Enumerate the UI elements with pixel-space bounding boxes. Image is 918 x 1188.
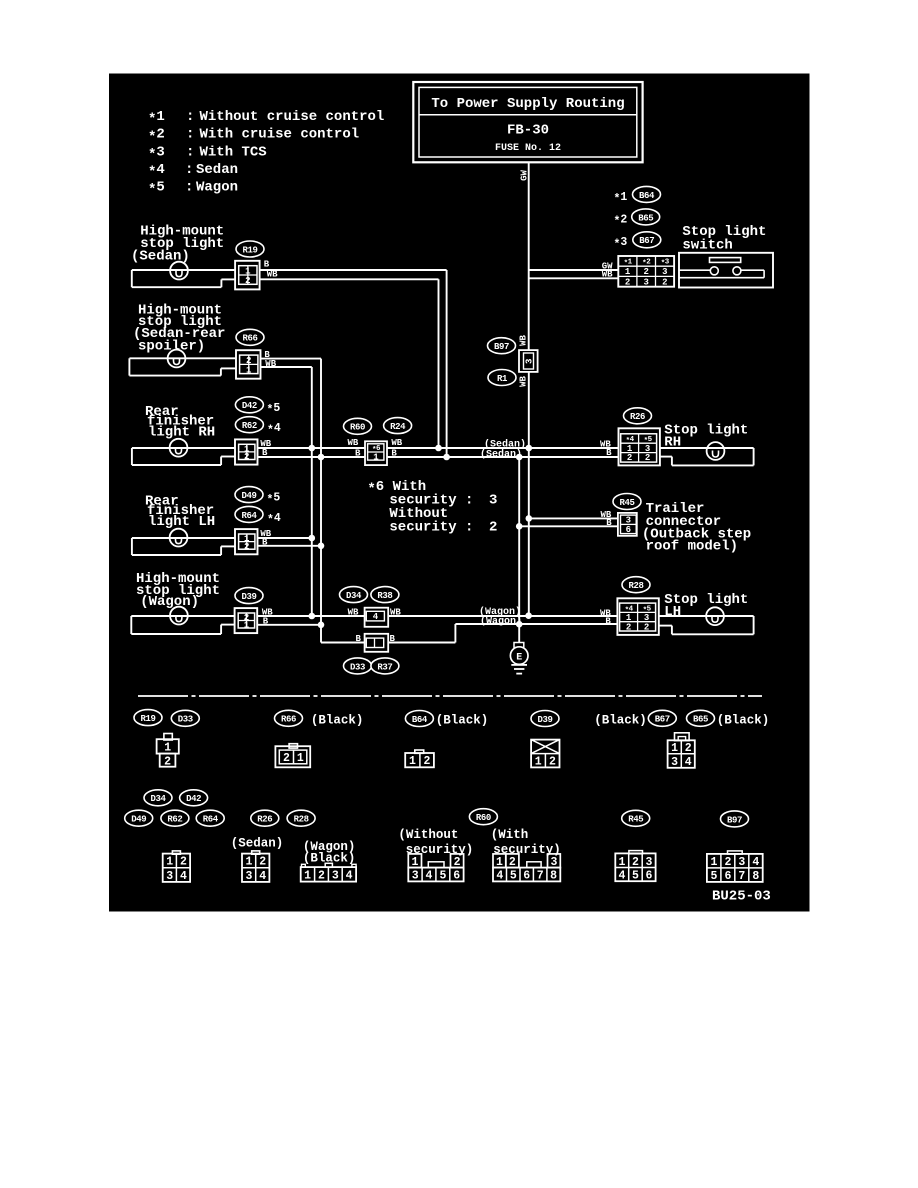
svg-text:5: 5 [632,870,639,883]
svg-text:E: E [516,652,522,663]
label Rear finisher light RH [145,404,215,441]
variant note (Wagon)(Black) [303,840,356,865]
wire WB from B97/R1 connector down to sedan WB bus [528,372,530,448]
wire B branch to trailer connector R45 [519,525,618,527]
legend note *3 [148,144,267,163]
wire GW vertical from fuse box [528,162,530,350]
wire junction [318,622,325,629]
svg-text:B97: B97 [727,815,742,825]
svg-text:1: 1 [710,856,717,869]
svg-text:2: 2 [724,856,731,869]
wire junction [309,613,316,620]
svg-text:(Wagon): (Wagon) [140,594,199,610]
svg-text:3: 3 [412,870,419,883]
connector label R24 [384,418,412,434]
svg-text:(Sedan): (Sedan) [480,449,522,461]
svg-text:BU25-03: BU25-03 [712,888,771,904]
svg-text:1: 1 [619,856,626,869]
wire junction [526,515,533,522]
svg-text:R19: R19 [140,714,155,724]
svg-text:1: 1 [373,453,379,463]
ground symbol E [510,624,528,673]
svg-text:4: 4 [346,870,353,883]
svg-text:6: 6 [645,870,652,883]
svg-text:1: 1 [246,856,253,869]
connector label R45 [613,494,641,510]
connector label B64 [633,186,661,202]
svg-text:B67: B67 [655,715,670,725]
svg-text:2: 2 [454,856,461,869]
svg-text:R45: R45 [619,498,634,508]
svg-text:(Black): (Black) [594,713,647,727]
label High-mount stop light (Wagon) [136,571,220,610]
inline connector D33/R37 [365,634,389,652]
svg-text:R26: R26 [630,412,645,422]
svg-text:2: 2 [244,542,249,552]
wire junction [318,543,325,550]
svg-text:B: B [606,518,612,528]
svg-text:B: B [606,448,612,458]
svg-text:security :: security : [389,520,473,536]
svg-text:WB: WB [348,608,359,618]
svg-text:2: 2 [644,622,649,632]
svg-text:1: 1 [297,752,304,765]
svg-text:2: 2 [625,277,630,287]
net wagon B path through D33/R37 [257,624,321,626]
svg-text:FB-30: FB-30 [507,123,549,139]
svg-text:4: 4 [180,870,187,883]
svg-text:D39: D39 [241,592,256,602]
connector label R26 [624,408,652,424]
svg-text:R28: R28 [294,815,309,825]
wire junction [318,454,325,461]
svg-text:D42: D42 [186,794,201,804]
inline connector B97/R1 pin 3 [519,350,538,372]
svg-text:2: 2 [643,267,648,277]
wire GW horizontal to stop light switch [529,269,619,271]
svg-text:With TCS: With TCS [200,144,267,160]
pinout R26/R28 (Sedan) pins 1-4 [242,851,269,883]
svg-text:R45: R45 [628,815,643,825]
svg-text::: : [186,127,194,143]
wire WB branch to trailer connector R45 [529,517,618,519]
connector label R64 (pinout) [196,810,224,826]
svg-text:6: 6 [523,870,530,883]
wire lamp to connector R19 [132,269,235,271]
connector label R19 (pinout) [134,710,162,726]
svg-text:1: 1 [411,856,418,869]
wire lamp to connector R64 [132,537,235,539]
svg-text:D49: D49 [131,815,146,825]
svg-text:R66: R66 [242,334,257,344]
svg-text:2: 2 [318,870,325,883]
svg-text:D34: D34 [150,794,166,804]
wire lamp return loop (Wagon high-mount) [130,616,132,634]
svg-text:5: 5 [510,870,517,883]
svg-text:WB: WB [390,608,401,618]
svg-text:*4: *4 [267,422,281,437]
connector R28 pin grid [617,598,658,635]
svg-text:*1: *1 [614,191,628,206]
legend note *2 [148,127,359,146]
pinout B67/B65 pins 1-4 [668,733,695,769]
svg-text:2: 2 [423,755,430,768]
connector label R1 [488,370,516,386]
svg-text:4: 4 [426,870,433,883]
svg-text:2: 2 [245,276,250,286]
svg-text:D33: D33 [178,715,193,725]
svg-text:2: 2 [627,453,632,463]
svg-text:D34: D34 [346,591,362,601]
svg-text:D39: D39 [537,715,552,725]
trailer connector R45 pins 3/6 [618,513,637,536]
svg-text:8: 8 [752,870,759,883]
lamp rear finisher light LH [170,529,188,547]
svg-text:security): security) [493,843,561,857]
net sedan WB bus [258,447,366,449]
connector label B65 [632,209,660,225]
pinout R60 (with security) pins 1-8 [493,854,560,883]
connector R66 [236,350,261,379]
lamp high-mount stop light (Wagon) [170,607,188,625]
svg-text:2: 2 [685,742,692,755]
svg-text:B: B [605,617,611,627]
label Rear finisher light LH [145,494,215,531]
svg-text:(Black): (Black) [436,713,489,727]
pinout R19/D33 pins 1/2 [157,734,179,769]
label Stop light RH [664,423,748,451]
svg-text:B: B [355,448,361,458]
svg-text:WB: WB [602,270,613,280]
connector label D42 (pinout) [180,790,208,806]
svg-text:light RH: light RH [148,425,215,441]
svg-text:2: 2 [509,856,516,869]
connector label B97 (pinout) [721,811,749,827]
svg-text:2: 2 [259,856,266,869]
wire lamp to connector R62 [132,447,235,449]
connector label R60 (pinout) [469,809,497,825]
svg-text:B64: B64 [639,191,655,201]
svg-text:*5: *5 [148,179,165,198]
svg-text:1: 1 [625,267,631,277]
svg-text:switch: switch [682,238,732,254]
svg-text:1: 1 [304,870,311,883]
svg-text:1: 1 [164,742,171,755]
svg-text:B64: B64 [412,715,428,725]
wire stop light RH feed [660,447,754,449]
note *6 with/without security [367,479,497,536]
svg-text:D33: D33 [350,662,365,672]
svg-text:B67: B67 [639,236,654,246]
svg-text:5: 5 [710,870,717,883]
svg-text:With cruise control: With cruise control [200,127,360,143]
svg-text::: : [186,144,194,160]
svg-text:D42: D42 [242,401,257,411]
svg-text:(Sedan): (Sedan) [231,837,284,851]
wire stop light RH return loop [753,448,755,465]
connector label R28 [622,577,650,593]
lamp high-mount stop light (Sedan) [170,262,188,280]
svg-text:FUSE No. 12: FUSE No. 12 [495,143,561,154]
wire lamp to connector D39 [131,615,234,617]
connector label R28 (pinout) [287,810,315,826]
svg-text:B65: B65 [693,715,708,725]
svg-text:(Without: (Without [398,828,458,842]
svg-text:WB: WB [391,438,402,448]
net wagon WB bus [257,615,364,617]
pinout D34/D42/D49/R62/R64 pins 1-4 [163,851,190,883]
svg-text:WB: WB [348,438,359,448]
lamp stop light RH [707,442,725,460]
stop light switch body [679,253,773,288]
svg-text:Sedan: Sedan [196,162,238,178]
connector label B67 (pinout) [648,710,676,726]
svg-text:R37: R37 [377,662,392,672]
svg-text:1: 1 [409,755,416,768]
stop light switch label [682,224,766,254]
svg-text:3: 3 [645,856,652,869]
connector label B65 (pinout) [687,710,715,726]
svg-text:*5: *5 [267,492,281,507]
svg-text:light LH: light LH [148,514,215,530]
svg-text:B: B [390,634,396,644]
wire junction [516,523,523,530]
label High-mount stop light (Sedan) [131,224,224,265]
svg-text:R24: R24 [390,422,406,432]
inline connector D34/R38 pin 4 [365,608,389,627]
svg-text:R60: R60 [350,423,365,433]
connector label D33 (pinout) [171,710,199,726]
svg-text:*2: *2 [614,213,628,228]
wire lamp return loop (rear finisher LH) [131,538,133,555]
label Stop light LH [664,592,748,620]
svg-text:R26: R26 [257,815,272,825]
connector label R62 [235,417,263,433]
connector label B64 (pinout) [405,711,433,727]
wire lamp return loop (Sedan high-mount) [131,270,133,287]
connector label R45 (pinout) [622,810,650,826]
svg-text:GW: GW [519,170,529,181]
svg-text:R60: R60 [476,813,491,823]
svg-text:(Black): (Black) [311,713,364,727]
svg-text:6: 6 [724,870,731,883]
label High-mount stop light (Sedan-rear spoiler) [133,303,225,355]
svg-text:3: 3 [166,870,173,883]
svg-text::: : [185,179,193,195]
legend note *4 [148,162,238,181]
connector label R38 [371,587,399,603]
svg-text:2: 2 [626,622,631,632]
pinout R66 pins 2/1 [275,744,310,768]
svg-text:2: 2 [244,452,249,462]
wire junction [309,445,316,452]
svg-text:(Wagon): (Wagon) [480,616,522,628]
pinout B64 pins 1/2 [405,750,434,768]
wire lamp return loop (rear spoiler) [128,358,130,375]
svg-text:3: 3 [525,359,535,364]
svg-text:(Black): (Black) [717,713,770,727]
svg-text:B97: B97 [494,342,509,352]
wire WB riser from sedan WB bus to wagon WB bus [528,448,530,616]
svg-text:2: 2 [164,756,171,769]
variant note (With security) [491,828,561,857]
svg-text:*3: *3 [148,144,165,163]
svg-text:7: 7 [537,870,544,883]
wire WB from switch to B97 connector [529,277,619,279]
svg-text:1: 1 [244,621,250,631]
svg-text:Without cruise control: Without cruise control [200,109,385,125]
svg-text:2: 2 [180,856,187,869]
lamp high-mount stop light (Sedan-rear spoiler) [168,350,186,368]
svg-text:3: 3 [489,493,497,509]
svg-text:*2: *2 [148,127,165,146]
svg-text:3: 3 [643,277,648,287]
svg-text:R64: R64 [241,511,257,521]
svg-text:*4: *4 [148,162,165,181]
connector label R62 (pinout) [161,810,189,826]
svg-text:1: 1 [246,365,252,375]
svg-text:3: 3 [662,267,667,277]
svg-text:4: 4 [685,756,692,769]
wire junction [525,612,532,619]
wire junction [526,445,533,452]
svg-text:1: 1 [245,267,251,277]
wire B from R64 to B riser [258,545,322,547]
wire B from R19 to sedan B bus [260,269,447,271]
svg-text:roof model): roof model) [646,539,738,555]
connector R64/D49 [235,529,258,554]
svg-text:WB: WB [267,270,278,280]
wire junction [435,445,442,452]
svg-text::: : [186,109,194,125]
connector label B97 [488,338,516,354]
svg-text:3: 3 [671,756,678,769]
wire junction [309,535,316,542]
svg-text:LH: LH [664,604,681,620]
svg-text:*3: *3 [614,236,628,251]
wire stop light LH feed [659,615,754,617]
svg-text:6: 6 [453,870,460,883]
svg-text:4: 4 [373,612,379,622]
svg-text:(Sedan): (Sedan) [484,438,526,450]
svg-text:(With: (With [491,828,529,842]
pinout D39 pins 1/2 [531,740,559,769]
svg-text:R19: R19 [242,245,257,255]
wire WB from R19 to sedan WB bus [260,278,439,280]
label Trailer connector (Outback step roof model) [642,501,751,555]
connector label R64 [235,506,263,522]
svg-text:B: B [391,448,397,458]
svg-text:B: B [264,260,270,270]
wire B from R66 down mid B riser [261,358,322,360]
wire lamp to connector R66 [129,357,236,359]
svg-text:WB: WB [519,376,529,387]
svg-text:R28: R28 [628,581,643,591]
svg-text:1: 1 [535,756,542,769]
connector label D42 [235,397,263,413]
svg-text:6: 6 [626,525,631,535]
connector R26 pin grid [619,428,660,465]
svg-text:R1: R1 [497,374,508,384]
net sedan B bus [258,456,366,458]
svg-text:4: 4 [619,870,626,883]
svg-text:3: 3 [550,856,557,869]
svg-text:D49: D49 [241,491,256,501]
variant note (Without security) [398,828,473,857]
connector label R66 (pinout) [275,710,303,726]
svg-text:*5: *5 [267,402,281,417]
svg-text:4: 4 [496,870,503,883]
diagram background panel [109,74,810,912]
connector label R19 [236,241,264,257]
pinout R45 pins 1-6 [615,851,655,883]
svg-text:Wagon: Wagon [196,179,238,195]
connector label D39 [235,588,263,604]
connector label R37 [371,658,399,674]
connector label D34 [340,587,368,603]
svg-text:4: 4 [259,870,266,883]
svg-text:R62: R62 [242,421,257,431]
divider dashed line [138,695,762,697]
svg-text:B: B [356,634,362,644]
svg-text:2: 2 [632,856,639,869]
svg-text:2: 2 [645,453,650,463]
wire WB from R66 down mid WB riser [261,366,312,368]
wire junction [516,454,523,461]
wire junction [516,621,523,628]
svg-text:7: 7 [738,870,745,883]
svg-text:1: 1 [671,742,678,755]
svg-text:To Power Supply Routing: To Power Supply Routing [431,96,624,112]
svg-text:3: 3 [738,856,745,869]
connector D39 [235,608,258,633]
wire junction [443,454,450,461]
svg-text:2: 2 [549,756,556,769]
connector R19 [235,261,260,290]
stop light switch connector pin grid [618,256,674,287]
connector label R60 [344,418,372,434]
svg-text:R66: R66 [281,715,296,725]
connector label R66 [236,329,264,345]
wire B riser from sedan B bus to wagon B bus [518,457,520,624]
wire stop light LH return loop [753,616,755,634]
wire WB from R64 to WB riser [258,537,312,539]
svg-text:WB: WB [519,335,529,346]
connector label D49 (pinout) [125,810,153,826]
svg-text:2: 2 [283,752,290,765]
svg-text:R64: R64 [203,815,219,825]
svg-text:R62: R62 [167,815,182,825]
svg-text:5: 5 [439,870,446,883]
connector label D39 (pinout) [531,711,559,727]
connector label D34 (pinout) [144,790,172,806]
svg-text:*1: *1 [148,109,165,128]
svg-text:4: 4 [752,856,759,869]
connector label D49 [235,487,263,503]
connector label R26 (pinout) [251,810,279,826]
lamp stop light LH [706,607,724,625]
connector label D33 [344,658,372,674]
svg-text:1: 1 [496,856,503,869]
svg-text::: : [185,162,193,178]
svg-text:R38: R38 [377,591,392,601]
connector R62/D42 [235,439,258,464]
power supply routing box FB-30 FUSE No.12 [413,82,642,162]
pinout R26/R28 (Wagon) pins 1-4 [301,863,356,882]
wire lamp return loop (rear finisher RH) [131,448,133,465]
svg-text:2: 2 [662,277,667,287]
svg-text:*4: *4 [267,512,281,527]
